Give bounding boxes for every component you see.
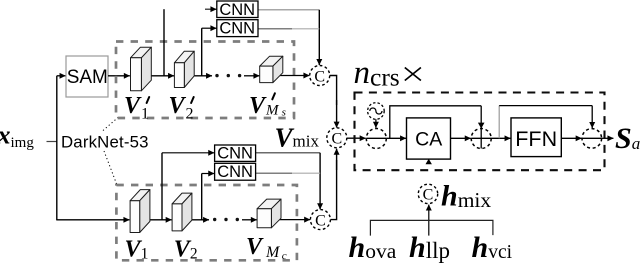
wire CNN1 output	[258, 9, 319, 11]
concat h_mix (dashed circle)	[418, 184, 437, 203]
wire C1 out right-down to Vmix	[330, 76, 337, 106]
skip wire plus1-out over CA to plus2	[390, 106, 481, 139]
tensor V'1	[131, 47, 152, 91]
wire C2 out right-up to Vmix	[330, 160, 336, 220]
concat C2 (dashed circle)	[310, 210, 330, 230]
adder plus2 (dashed circle)	[471, 129, 491, 149]
svg-text:M: M	[265, 244, 281, 261]
dots upper	[215, 74, 218, 77]
svg-text:V: V	[169, 93, 187, 119]
svg-text:C: C	[423, 187, 434, 204]
svg-text:s: s	[282, 106, 286, 118]
block CNN2	[217, 20, 258, 37]
wire Vmix to plus1	[347, 137, 366, 139]
wire CNN2 input	[202, 27, 217, 29]
wire CNN1 feed vertical	[163, 9, 165, 75]
wire CNN3 feed vertical	[161, 153, 163, 221]
wire dots to VMc arrow	[242, 219, 257, 221]
wire V2 to dots arrow	[182, 219, 209, 221]
wire CNN2 feed vertical	[201, 28, 203, 75]
wire through plus1	[366, 137, 386, 139]
svg-text:C: C	[331, 131, 342, 148]
svg-text:V: V	[246, 234, 264, 260]
svg-text:CNN: CNN	[217, 145, 253, 163]
wire CNN4 input	[202, 173, 215, 175]
svg-text:CA: CA	[415, 128, 442, 150]
svg-text:M: M	[265, 102, 280, 118]
block FFN	[511, 118, 561, 157]
wire CA to plus2 arrow	[451, 137, 471, 139]
wire x_img to trunk	[47, 141, 58, 143]
wire dotted connector to lower box	[104, 151, 117, 185]
wire V'Ms to concat C1	[273, 75, 309, 77]
block SAM	[66, 56, 108, 97]
wire through plus3	[582, 137, 602, 139]
skip wire plus2-out over FFN to plus3	[498, 106, 500, 139]
wire plus3 to S_a arrow	[602, 137, 614, 139]
svg-text:CNN: CNN	[219, 1, 255, 19]
wire CNN3 output	[256, 152, 321, 154]
svg-text:CNN: CNN	[217, 163, 253, 181]
adder plus3 (dashed circle)	[582, 129, 602, 149]
wire trunk to V1 arrow	[57, 219, 130, 221]
concat C1 (dashed circle)	[310, 66, 330, 86]
block CA	[407, 118, 451, 159]
wire SAM to V'1 arrow	[108, 75, 130, 77]
box DarkNet upper (dashed)	[116, 42, 294, 119]
box decoder block (big dashed)	[355, 93, 605, 171]
wire plus1 to CA arrow	[386, 137, 406, 139]
concat Vmix (dashed circle)	[327, 128, 347, 148]
wire through plus2 to FFN arrow	[471, 137, 510, 139]
wire pos-enc to plus1	[375, 119, 377, 127]
positional encoding circle	[368, 103, 385, 120]
adder plus1 (dashed circle)	[366, 129, 386, 149]
wire CNN3 input	[162, 152, 214, 154]
block CNN4	[215, 163, 256, 180]
wire dots to V'Ms arrow	[244, 75, 259, 77]
svg-text:V: V	[124, 93, 142, 119]
wire V1 to V2 arrow	[140, 219, 171, 221]
wire bracket center stub to h_mix circle	[428, 205, 430, 236]
wire dotted connector to upper box	[103, 118, 118, 131]
wire CNN4 feed vertical	[201, 174, 203, 221]
wire CNN1 input	[205, 8, 216, 10]
svg-text:SAM: SAM	[67, 67, 108, 88]
tensor V1	[130, 190, 150, 233]
svg-text:C: C	[315, 212, 326, 229]
svg-text:c: c	[282, 250, 287, 262]
tensor V'Ms	[260, 56, 283, 82]
svg-text:FFN: FFN	[515, 127, 557, 151]
arrowhead into CA bottom (from h_mix)	[426, 159, 432, 164]
tensor V'2	[174, 51, 194, 87]
svg-text:2: 2	[186, 106, 194, 123]
wire FFN to plus3 arrow	[561, 137, 581, 139]
svg-text:C: C	[314, 68, 325, 85]
dots lower	[213, 218, 216, 221]
wire skip down into plus2 (through)	[480, 106, 482, 149]
wire V'2 to dots arrow	[185, 75, 213, 77]
box DarkNet lower (dashed)	[116, 185, 297, 260]
tensor VMc	[257, 199, 281, 228]
wire trunk to SAM arrow	[57, 75, 66, 77]
block CNN3	[215, 145, 256, 161]
wire V'1 to V'2 arrow	[142, 75, 174, 77]
bracket over h inputs	[370, 220, 493, 235]
block CNN1	[217, 1, 258, 18]
wire trunk vertical	[56, 76, 58, 221]
svg-text:DarkNet-53: DarkNet-53	[61, 132, 149, 151]
wire CNN2 output	[258, 28, 292, 30]
wire VMc to concat C2	[272, 219, 310, 221]
tensor V2	[172, 193, 192, 231]
wire CNN4 output	[256, 172, 292, 174]
svg-text:1: 1	[141, 106, 149, 123]
svg-text:V: V	[249, 93, 267, 119]
svg-text:CNN: CNN	[219, 20, 255, 38]
